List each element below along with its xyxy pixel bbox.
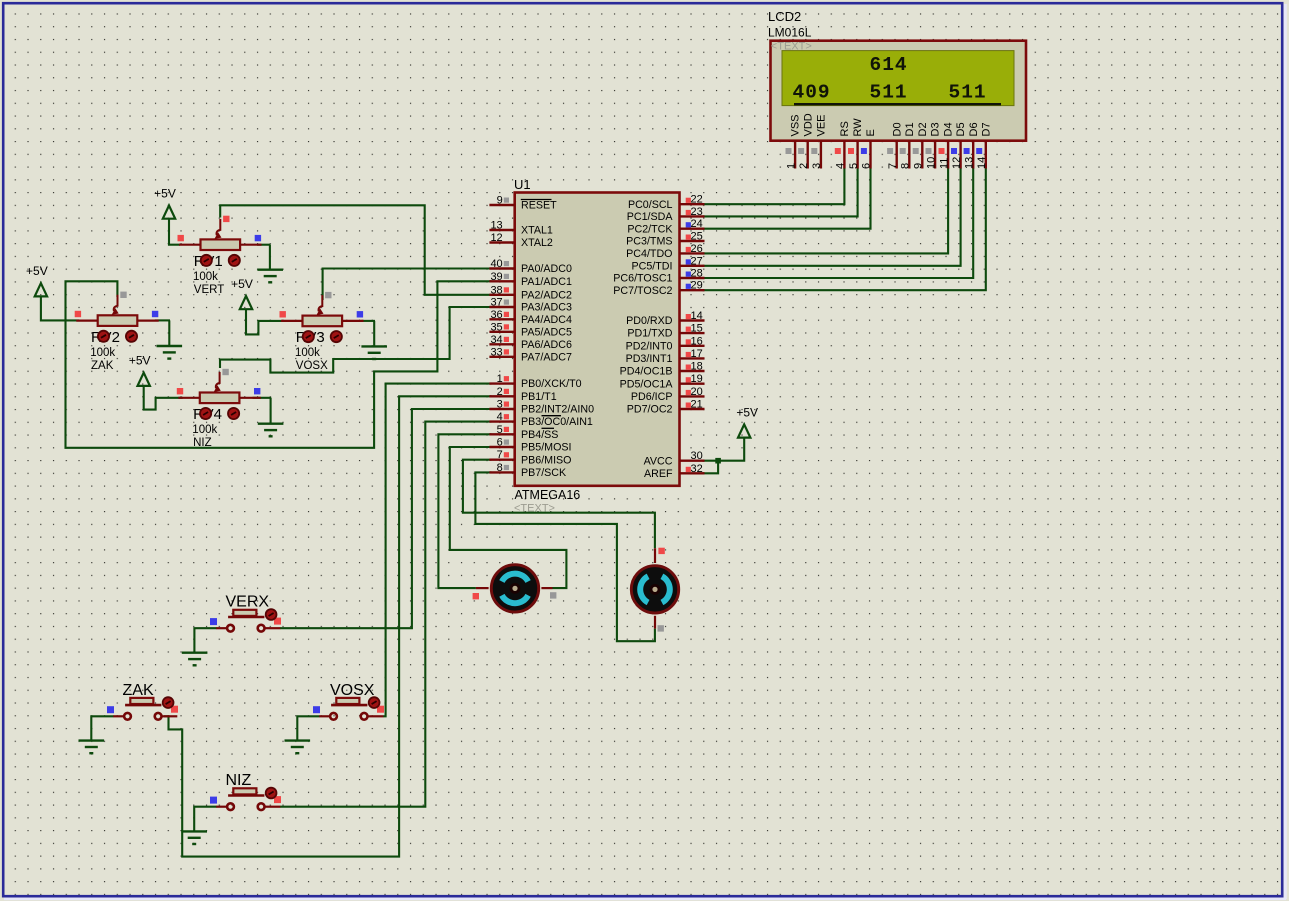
- svg-text:RESET: RESET: [521, 200, 557, 212]
- wire +5V to U1 AVCC pin30 and AREF pin32: [703, 438, 745, 461]
- RV1 wiper terminal square: [223, 216, 229, 222]
- U1 pin 40 PA0/ADC0 stub: [489, 267, 514, 269]
- U1 pin 39 PA1/ADC1 stub: [489, 280, 514, 282]
- svg-text:12: 12: [490, 232, 502, 244]
- svg-text:+5V: +5V: [231, 277, 253, 291]
- RV2 pin3 lead: [137, 320, 158, 322]
- svg-text:38: 38: [490, 284, 502, 296]
- svg-text:PA6/ADC6: PA6/ADC6: [521, 339, 572, 351]
- svg-text:PD7/OC2: PD7/OC2: [627, 404, 673, 416]
- wire LCD pin13 D6 to U1 PC6 pin28: [703, 168, 974, 278]
- svg-text:VOSX: VOSX: [330, 682, 375, 699]
- U1 pin 3 PB2/INT2/AIN0 stub: [489, 408, 514, 410]
- svg-text:37: 37: [490, 297, 502, 309]
- svg-text:VERX: VERX: [226, 594, 270, 611]
- svg-text:+5V: +5V: [26, 264, 48, 278]
- svg-text:26: 26: [691, 243, 703, 255]
- U1 pin 37 PA3/ADC3 stub: [489, 306, 514, 308]
- svg-text:14: 14: [691, 310, 703, 322]
- svg-text:XTAL2: XTAL2: [521, 237, 553, 249]
- motor M1 hub: [511, 584, 519, 592]
- svg-text:3: 3: [497, 399, 503, 411]
- U1 pin 18 PD4/OC1B stub: [680, 370, 705, 372]
- push-button VOSX left pin square: [313, 706, 320, 713]
- push-button VOSX actuator bar: [331, 704, 367, 707]
- svg-text:PA3/ADC3: PA3/ADC3: [521, 302, 572, 314]
- wire U1 PB3 pin4 to NIZ button: [280, 422, 491, 807]
- svg-text:XTAL1: XTAL1: [521, 225, 553, 237]
- push-button ZAK clicker knob: [163, 697, 174, 708]
- wire RV2 wiper to U1 PA1 pin39: [66, 281, 492, 448]
- push-button ZAK left pin square: [107, 706, 114, 713]
- junction node AVCC/AREF: [715, 458, 721, 464]
- RV1 pin1 lead: [179, 244, 200, 246]
- RV1 wiper arrow pin2: [217, 219, 221, 235]
- wire +5V to RV4 pin1: [144, 386, 183, 410]
- svg-text:1: 1: [785, 163, 797, 169]
- RV3 wiper arrow pin2: [319, 295, 323, 311]
- U1 pin 35 PA5/ADC5 stub: [489, 331, 514, 333]
- svg-text:27: 27: [691, 255, 703, 267]
- motor M2 top lead: [654, 548, 656, 563]
- wire U1 PB7 pin8 to motor M2 bottom terminal: [475, 472, 655, 641]
- svg-text:16: 16: [691, 335, 703, 347]
- ground symbol for NIZ button: [194, 807, 216, 832]
- svg-text:D4: D4: [943, 122, 955, 136]
- svg-text:PD3/INT1: PD3/INT1: [626, 353, 673, 365]
- push-button NIZ left pin square: [210, 797, 217, 804]
- svg-text:2: 2: [798, 163, 810, 169]
- svg-text:4: 4: [835, 163, 847, 169]
- svg-text:PC0/SCL: PC0/SCL: [628, 199, 673, 211]
- svg-text:PD1/TXD: PD1/TXD: [627, 328, 672, 340]
- RV3 pin3 lead: [342, 320, 363, 322]
- wire LCD pin5 RW to U1 PC1 pin23: [703, 168, 858, 216]
- svg-text:28: 28: [691, 268, 703, 280]
- svg-text:VEE: VEE: [816, 114, 828, 136]
- motor M2 bottom lead: [654, 616, 656, 629]
- RV1 pin3 lead: [240, 244, 261, 246]
- svg-text:D1: D1: [904, 122, 916, 136]
- svg-text:ZAK: ZAK: [91, 360, 114, 372]
- U1 pin 29 PC7/TOSC2 stub: [680, 289, 705, 291]
- svg-text:PC6/TOSC1: PC6/TOSC1: [613, 273, 672, 285]
- U1 pin 7 PB6/MISO stub: [489, 459, 514, 461]
- push-button VOSX cap: [336, 698, 359, 704]
- U1 pin 8 PB7/SCK stub: [489, 471, 514, 473]
- svg-text:AREF: AREF: [644, 468, 673, 480]
- svg-text:PC1/SDA: PC1/SDA: [627, 211, 674, 223]
- svg-text:614: 614: [870, 54, 908, 76]
- svg-text:22: 22: [691, 194, 703, 206]
- motor M1 left lead: [476, 587, 489, 589]
- wire RV1 wiper to U1 PA2 pin38: [220, 205, 491, 294]
- push-button VERX actuator bar: [228, 616, 264, 619]
- svg-text:100k: 100k: [90, 347, 115, 359]
- LCD2 cursor underline: [794, 103, 1001, 105]
- svg-text:D7: D7: [980, 122, 992, 136]
- potentiometer RV1 100k (VERT) body: [201, 239, 241, 250]
- svg-text:PB4/SS: PB4/SS: [521, 429, 558, 441]
- svg-text:5: 5: [848, 163, 860, 169]
- U1 pin 33 PA7/ADC7 stub: [489, 356, 514, 358]
- svg-text:8: 8: [497, 462, 503, 474]
- RV4 adjust knob circles: [200, 408, 211, 419]
- svg-text:100k: 100k: [295, 347, 320, 359]
- push-button NIZ leads: [216, 806, 227, 808]
- U1 pin 38 PA2/ADC2 stub: [489, 294, 514, 296]
- svg-text:D0: D0: [891, 122, 903, 136]
- svg-text:AVCC: AVCC: [644, 455, 673, 467]
- svg-text:25: 25: [691, 231, 703, 243]
- svg-text:6: 6: [497, 437, 503, 449]
- svg-text:+5V: +5V: [154, 187, 176, 201]
- svg-text:D5: D5: [955, 122, 967, 136]
- RV3 pin1 terminal square: [280, 311, 286, 317]
- svg-text:NIZ: NIZ: [193, 437, 212, 449]
- push-button VERX cap: [233, 610, 256, 616]
- svg-text:RS: RS: [839, 121, 851, 136]
- RV2 pin3 terminal square: [152, 311, 158, 317]
- wire LCD pin4 RS to U1 PC0 pin22: [703, 168, 845, 204]
- svg-text:PC3/TMS: PC3/TMS: [626, 236, 672, 248]
- svg-text:PC5/TDI: PC5/TDI: [632, 260, 673, 272]
- svg-text:30: 30: [691, 450, 703, 462]
- U1 pin 4 PB3/OC0/AIN1 stub: [489, 420, 514, 422]
- push-button VERX leads: [216, 627, 227, 629]
- svg-text:D3: D3: [930, 122, 942, 136]
- U1 pin 9 RESET stub: [489, 204, 514, 206]
- svg-text:PB1/T1: PB1/T1: [521, 391, 557, 403]
- RV3 wiper terminal square: [325, 292, 331, 298]
- U1 pin 20 PD6/ICP stub: [680, 395, 705, 397]
- RV1 adjust knob circles: [201, 255, 212, 266]
- svg-text:100k: 100k: [193, 271, 218, 283]
- svg-text:PD2/INT0: PD2/INT0: [626, 340, 673, 352]
- svg-text:D2: D2: [917, 122, 929, 136]
- wire U1 PB1 pin2 to ZAK button: [164, 396, 491, 856]
- svg-text:7: 7: [497, 449, 503, 461]
- svg-text:7: 7: [887, 163, 899, 169]
- svg-text:PA4/ADC4: PA4/ADC4: [521, 314, 572, 326]
- svg-text:<TEXT>: <TEXT>: [514, 503, 555, 515]
- motor M1 body: [491, 565, 538, 612]
- svg-text:E: E: [865, 129, 877, 136]
- push-button VOSX leads: [319, 715, 330, 717]
- svg-text:PB2/INT2/AIN0: PB2/INT2/AIN0: [521, 404, 594, 416]
- U1 pin 17 PD3/INT1 stub: [680, 357, 705, 359]
- svg-text:3: 3: [811, 163, 823, 169]
- push-button VERX left pin square: [210, 618, 217, 625]
- RV1 pin1 terminal square: [178, 235, 184, 241]
- RV4 wiper arrow pin2: [216, 372, 220, 388]
- wire U1 PB2 pin3 to VERX button: [280, 409, 491, 628]
- potentiometer RV2 100k (ZAK) body: [98, 315, 138, 326]
- potentiometer RV4 100k (NIZ) body: [200, 393, 240, 404]
- U1 pin 34 PA6/ADC6 stub: [489, 343, 514, 345]
- U1 pin 27 PC5/TDI stub: [680, 265, 705, 267]
- wire LCD pin6 E to U1 PC2 pin24: [703, 168, 871, 229]
- U1 pin 19 PD5/OC1A stub: [680, 383, 705, 385]
- svg-text:5: 5: [497, 424, 503, 436]
- push-button VERX terminal circles: [227, 625, 234, 632]
- U1 pin 24 PC2/TCK stub: [680, 227, 705, 229]
- svg-text:34: 34: [490, 334, 502, 346]
- svg-text:PA1/ADC1: PA1/ADC1: [521, 276, 572, 288]
- U1 pin 22 PC0/SCL stub: [680, 203, 705, 205]
- ground symbol for ZAK button: [91, 716, 113, 740]
- svg-text:511: 511: [870, 82, 908, 104]
- RV2 wiper arrow pin2: [114, 295, 118, 311]
- U1 pin 36 PA4/ADC4 stub: [489, 318, 514, 320]
- push-button VERX clicker knob: [266, 609, 277, 620]
- RV2 pin1 lead: [76, 320, 97, 322]
- U1 pin 2 PB1/T1 stub: [489, 395, 514, 397]
- svg-text:14: 14: [976, 157, 988, 169]
- U1 pin 28 PC6/TOSC1 stub: [680, 277, 705, 279]
- U1 RESET overline: [521, 199, 552, 201]
- push-button ZAK leads: [113, 715, 124, 717]
- push-button NIZ cap: [233, 788, 256, 794]
- push-button ZAK terminal circles: [124, 713, 131, 720]
- svg-text:2: 2: [497, 386, 503, 398]
- RV4 wiper terminal square: [222, 369, 228, 375]
- svg-text:PB6/MISO: PB6/MISO: [521, 454, 571, 466]
- RV4 pin1 lead: [178, 397, 199, 399]
- wire RV3 pin3 to ground: [362, 320, 376, 322]
- svg-text:18: 18: [691, 361, 703, 373]
- ground symbol for VOSX button: [297, 716, 319, 740]
- MCU U1 ATMEGA16 body: [515, 193, 680, 486]
- svg-text:RW: RW: [852, 118, 864, 137]
- svg-text:ATMEGA16: ATMEGA16: [515, 488, 581, 502]
- U1 pin 30 AVCC stub: [680, 460, 705, 462]
- svg-text:6: 6: [861, 163, 873, 169]
- svg-text:+5V: +5V: [736, 405, 758, 419]
- svg-text:PD5/OC1A: PD5/OC1A: [620, 378, 674, 390]
- svg-text:LM016L: LM016L: [768, 26, 812, 40]
- svg-text:PD4/OC1B: PD4/OC1B: [620, 366, 673, 378]
- svg-text:39: 39: [490, 271, 502, 283]
- push-button VOSX right pin square: [377, 706, 384, 713]
- RV4 pin3 terminal square: [254, 388, 260, 394]
- push-button VOSX terminal circles: [330, 713, 337, 720]
- svg-text:35: 35: [490, 321, 502, 333]
- wire LCD pin11 D4 to U1 PC4 pin26: [703, 168, 949, 253]
- push-button NIZ right pin square: [274, 796, 281, 803]
- wire U1 PB5 pin6 to motor M1 right terminal: [450, 447, 567, 588]
- motor M2 hub: [651, 585, 659, 593]
- svg-text:20: 20: [691, 386, 703, 398]
- svg-text:VOSX: VOSX: [296, 360, 328, 372]
- U1 pin 23 PC1/SDA stub: [680, 215, 705, 217]
- svg-text:10: 10: [925, 157, 937, 169]
- U1 pin 6 PB5/MOSI stub: [489, 446, 514, 448]
- svg-text:9: 9: [913, 163, 925, 169]
- wire U1 PB4 pin5 to motor M1 left terminal: [438, 434, 491, 588]
- RV2 pin1 terminal square: [75, 311, 81, 317]
- RV3 pin1 lead: [281, 320, 302, 322]
- svg-text:8: 8: [900, 163, 912, 169]
- push-button NIZ actuator bar: [228, 794, 264, 797]
- svg-text:409: 409: [793, 82, 831, 104]
- U1 pin 1 PB0/XCK/T0 stub: [489, 382, 514, 384]
- wire +5V to RV1 pin1: [169, 219, 180, 245]
- push-button NIZ clicker knob: [266, 788, 277, 799]
- RV4 pin3 lead: [239, 397, 260, 399]
- push-button ZAK actuator bar: [125, 704, 161, 707]
- svg-text:VSS: VSS: [790, 114, 802, 136]
- wire U1 PB6 pin7 to motor M2 top terminal: [463, 460, 655, 549]
- push-button NIZ terminal circles: [227, 803, 234, 810]
- svg-text:VERT: VERT: [194, 284, 224, 296]
- svg-text:PC7/TOSC2: PC7/TOSC2: [613, 285, 672, 297]
- ground symbol for RV2: [168, 320, 170, 346]
- RV1 pin3 terminal square: [255, 235, 261, 241]
- ground symbol for RV1: [269, 245, 271, 270]
- RV4 pin1 terminal square: [177, 388, 183, 394]
- svg-text:PB7/SCK: PB7/SCK: [521, 467, 567, 479]
- svg-text:ZAK: ZAK: [123, 682, 154, 699]
- wire LCD pin12 D5 to U1 PC5 pin27: [703, 168, 961, 266]
- U1 pin 12 XTAL2 stub: [489, 241, 514, 243]
- svg-text:PA7/ADC7: PA7/ADC7: [521, 351, 572, 363]
- svg-text:29: 29: [691, 280, 703, 292]
- RV3 pin3 terminal square: [357, 311, 363, 317]
- U1 pin 25 PC3/TMS stub: [680, 240, 705, 242]
- svg-text:LCD2: LCD2: [768, 9, 801, 24]
- U1 PB4 SS overline: [542, 427, 555, 429]
- svg-text:PB3/OC0/AIN1: PB3/OC0/AIN1: [521, 416, 593, 428]
- svg-text:PC2/TCK: PC2/TCK: [627, 223, 673, 235]
- U1 pin 14 PD0/RXD stub: [680, 319, 705, 321]
- U1 pin 16 PD2/INT0 stub: [680, 345, 705, 347]
- svg-text:24: 24: [691, 218, 703, 230]
- U1 PB3 OC0 overline: [542, 415, 562, 417]
- svg-text:12: 12: [951, 157, 963, 169]
- svg-text:4: 4: [497, 411, 503, 423]
- svg-text:40: 40: [490, 258, 502, 270]
- svg-text:19: 19: [691, 373, 703, 385]
- svg-text:PA0/ADC0: PA0/ADC0: [521, 263, 572, 275]
- motor M1 rotor arcs: [502, 574, 528, 582]
- RV2 wiper terminal square: [120, 292, 126, 298]
- U1 pin 13 XTAL1 stub: [489, 229, 514, 231]
- svg-text:VDD: VDD: [802, 113, 814, 136]
- wire LCD pin14 D7 to U1 PC7 pin29: [703, 168, 986, 290]
- push-button VERX right pin square: [274, 618, 281, 625]
- ground symbol for RV4: [270, 398, 272, 424]
- svg-text:PA2/ADC2: PA2/ADC2: [521, 289, 572, 301]
- push-button ZAK cap: [130, 698, 153, 704]
- ground symbol for RV3: [373, 321, 375, 346]
- svg-text:21: 21: [691, 399, 703, 411]
- RV3 adjust knob circles: [303, 331, 314, 342]
- svg-text:PC4/TDO: PC4/TDO: [626, 248, 672, 260]
- svg-text:17: 17: [691, 348, 703, 360]
- U1 pin 32 AREF stub: [680, 472, 705, 474]
- motor M2 rotor arcs: [662, 576, 670, 602]
- wire +5V to RV3 pin1: [246, 309, 283, 334]
- U1 pin 21 PD7/OC2 stub: [680, 408, 705, 410]
- svg-text:PB5/MOSI: PB5/MOSI: [521, 442, 571, 454]
- svg-text:D6: D6: [968, 122, 980, 136]
- wire RV4 wiper to U1 PA3 pin37: [220, 307, 491, 373]
- svg-text:U1: U1: [514, 177, 531, 192]
- svg-text:36: 36: [490, 309, 502, 321]
- svg-text:13: 13: [963, 157, 975, 169]
- svg-text:13: 13: [490, 220, 502, 232]
- RV2 adjust knob circles: [98, 331, 109, 342]
- motor M1 right lead: [541, 587, 552, 589]
- svg-text:1: 1: [497, 373, 503, 385]
- wire RV4 pin3 to ground: [253, 397, 272, 399]
- potentiometer RV3 100k (VOSX) body: [303, 316, 343, 327]
- svg-text:NIZ: NIZ: [226, 772, 252, 789]
- svg-text:PA5/ADC5: PA5/ADC5: [521, 326, 572, 338]
- svg-text:511: 511: [949, 82, 987, 104]
- U1 pin 15 PD1/TXD stub: [680, 332, 705, 334]
- wire RV3 wiper to U1 PA0 pin40: [323, 269, 492, 301]
- svg-text:32: 32: [691, 463, 703, 475]
- motor M2 body: [631, 566, 678, 613]
- svg-text:PD6/ICP: PD6/ICP: [631, 391, 673, 403]
- svg-text:33: 33: [490, 346, 502, 358]
- wire RV1 pin3 to ground: [257, 244, 271, 246]
- svg-text:23: 23: [691, 206, 703, 218]
- ground symbol for VERX button: [194, 628, 216, 652]
- wire +5V to RV2 pin1: [41, 296, 79, 320]
- LCD2 green display screen: [782, 51, 1014, 106]
- push-button ZAK right pin square: [171, 706, 178, 713]
- svg-text:15: 15: [691, 323, 703, 335]
- U1 pin 5 PB4/SS stub: [489, 433, 514, 435]
- wire RV2 pin3 to ground: [155, 319, 170, 321]
- push-button VOSX clicker knob: [369, 697, 380, 708]
- svg-text:PB0/XCK/T0: PB0/XCK/T0: [521, 378, 582, 390]
- svg-text:11: 11: [938, 158, 950, 169]
- svg-text:9: 9: [497, 195, 503, 207]
- svg-text:PD0/RXD: PD0/RXD: [626, 315, 673, 327]
- U1 pin 26 PC4/TDO stub: [680, 252, 705, 254]
- svg-text:100k: 100k: [192, 424, 217, 436]
- svg-text:+5V: +5V: [129, 354, 151, 368]
- wire U1 PB0 pin1 to VOSX button: [383, 384, 491, 717]
- LCD2 LM016L body: [771, 41, 1027, 141]
